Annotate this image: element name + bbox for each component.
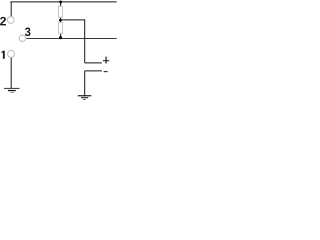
- label 2: [0, 17, 6, 26]
- ground 1 (below terminal 1): [4, 88, 20, 92]
- ground 2 (below minus output): [78, 96, 92, 100]
- wire ground 2 stem: [84, 71, 86, 96]
- label plus at positive output: [103, 60, 109, 62]
- label minus at negative output: [104, 71, 108, 73]
- terminal 1 circle: [8, 50, 15, 57]
- wire middle tap horizontal: [61, 19, 86, 21]
- node junction dot middle tap: [59, 19, 62, 22]
- label 1: [1, 51, 4, 59]
- wire terminal 1 stem down to ground 1: [10, 57, 12, 88]
- resistor R2 (lower box of divider): [58, 22, 62, 33]
- wire bottom bus from terminal 3 to right edge: [26, 37, 116, 39]
- label 3: [25, 27, 31, 36]
- resistor R1 (upper box of divider): [58, 6, 62, 17]
- wire top bus from terminal 2 to right edge: [10, 1, 116, 3]
- wire terminal 2 stem: [10, 1, 12, 16]
- wire tap vertical down to plus line: [84, 20, 86, 63]
- wire minus output line: [85, 70, 102, 72]
- node junction dot top: [59, 1, 62, 4]
- wire resistor divider vertical: [60, 2, 62, 39]
- wire plus output line: [85, 62, 102, 64]
- node junction dot bottom: [59, 36, 62, 39]
- terminal 3 circle: [19, 35, 25, 41]
- terminal 2 circle: [7, 17, 14, 24]
